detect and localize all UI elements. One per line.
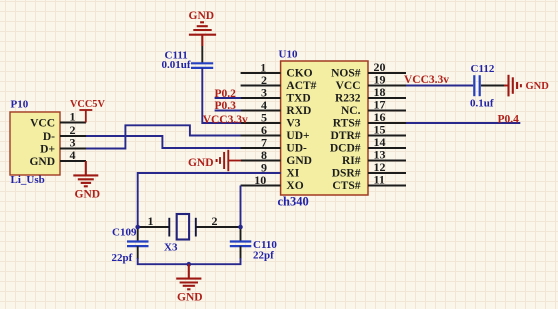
U10 pin 17 NC. xyxy=(341,98,406,117)
ground GND at C112 xyxy=(504,75,522,97)
svg-text:10: 10 xyxy=(254,173,266,187)
svg-text:GND: GND xyxy=(75,189,101,201)
connector P10 body xyxy=(10,112,60,175)
capacitor C112 xyxy=(474,75,479,96)
svg-text:GND: GND xyxy=(177,291,203,303)
ground GND at U10.8 xyxy=(216,150,241,171)
svg-text:VCC5V: VCC5V xyxy=(70,99,105,110)
svg-text:DTR#: DTR# xyxy=(330,130,360,142)
svg-text:P0.4: P0.4 xyxy=(498,113,520,125)
wire U10.19 to C112 xyxy=(406,85,473,87)
svg-text:RXD: RXD xyxy=(286,105,311,117)
U10 pin 15 DTR# xyxy=(330,123,406,142)
U10 pin 3 TXD xyxy=(241,85,311,104)
svg-text:VCC3.3v: VCC3.3v xyxy=(203,114,248,126)
svg-text:CKO: CKO xyxy=(286,67,312,79)
svg-text:RTS#: RTS# xyxy=(333,117,361,129)
U10 pin 20 NOS# xyxy=(331,60,406,79)
svg-text:P0.3: P0.3 xyxy=(215,100,237,112)
svg-text:V3: V3 xyxy=(286,117,300,129)
U10 pin 18 R232 xyxy=(335,85,406,104)
ground GND at P10 pin 4 xyxy=(73,161,98,186)
svg-text:22pf: 22pf xyxy=(253,250,274,262)
power symbol VCC5V xyxy=(79,110,92,123)
wire XI (U10.9 to X3 pin1) xyxy=(138,173,281,227)
wire GND to C111 xyxy=(201,46,203,63)
svg-text:C109: C109 xyxy=(112,227,137,239)
wire D+ (P10.3 to U10.6) xyxy=(86,125,241,148)
wire XO (U10.10 to X3 pin2) xyxy=(240,186,242,228)
svg-text:XO: XO xyxy=(286,180,303,192)
svg-text:RI#: RI# xyxy=(342,155,361,167)
wire C111 to U10.5 xyxy=(202,68,241,123)
svg-text:GND: GND xyxy=(286,155,312,167)
U10 pin 8 GND xyxy=(241,148,312,167)
svg-text:R232: R232 xyxy=(335,92,361,104)
U10 pin 16 RTS# xyxy=(333,110,406,129)
U10 pin 10 XO xyxy=(241,173,304,192)
svg-text:UD+: UD+ xyxy=(286,130,309,142)
U10 pin 2 ACT# xyxy=(241,73,317,92)
svg-text:11: 11 xyxy=(374,173,385,187)
svg-text:GND: GND xyxy=(29,156,55,168)
svg-text:GND: GND xyxy=(526,81,550,92)
wire C112 to GND xyxy=(481,85,506,87)
junction bottom rail xyxy=(187,262,192,267)
U10 pin 19 VCC xyxy=(336,73,406,92)
capacitor C110 xyxy=(230,227,252,259)
U10 pin 11 CTS# xyxy=(332,173,406,192)
P10 pin 4 (GND) xyxy=(29,148,86,168)
ground GND above C111 xyxy=(189,22,216,46)
svg-text:NOS#: NOS# xyxy=(331,67,361,79)
U10 pin 5 V3 xyxy=(241,110,301,129)
svg-text:VCC3.3v: VCC3.3v xyxy=(404,74,449,86)
U10 pin 4 RXD xyxy=(241,98,312,117)
U10 pin 12 DSR# xyxy=(332,160,406,179)
svg-text:2: 2 xyxy=(212,214,218,228)
svg-text:D+: D+ xyxy=(40,144,55,156)
svg-text:CTS#: CTS# xyxy=(332,180,360,192)
U10 pin 14 DCD# xyxy=(330,135,406,154)
svg-text:0.01uf: 0.01uf xyxy=(162,59,191,71)
wire stub P0.3 (U10.4) xyxy=(215,110,241,112)
wire U10.16 (P0.4) xyxy=(406,122,520,124)
svg-text:X3: X3 xyxy=(164,242,178,254)
svg-text:1: 1 xyxy=(148,214,154,228)
svg-text:ACT#: ACT# xyxy=(286,80,316,92)
svg-text:22pf: 22pf xyxy=(112,252,133,264)
P10 pin 3 (D+) xyxy=(40,135,86,155)
svg-text:0.1uf: 0.1uf xyxy=(470,98,494,110)
svg-text:XI: XI xyxy=(286,167,299,179)
U10 pin 7 UD- xyxy=(241,135,307,154)
svg-text:VCC: VCC xyxy=(30,118,55,130)
svg-text:C112: C112 xyxy=(471,63,495,75)
capacitor C111 xyxy=(191,63,213,68)
U10 pin 9 XI xyxy=(241,160,300,179)
P10 pin 1 (VCC) xyxy=(30,109,86,129)
svg-text:GND: GND xyxy=(189,10,215,22)
svg-text:P10: P10 xyxy=(11,99,29,111)
wire D- (P10.2 to U10.7) xyxy=(86,136,241,148)
crystal X3 xyxy=(138,214,241,240)
IC U10 body xyxy=(281,61,368,195)
P10 pin 2 (D-) xyxy=(43,123,86,143)
svg-text:ch340: ch340 xyxy=(278,194,309,208)
junction X3 pin1 xyxy=(135,225,140,230)
wire stub P0.2 (U10.3) xyxy=(215,97,241,99)
svg-text:4: 4 xyxy=(70,148,76,162)
svg-text:VCC: VCC xyxy=(336,80,361,92)
svg-text:Li_Usb: Li_Usb xyxy=(11,174,45,186)
svg-text:TXD: TXD xyxy=(286,92,310,104)
U10 pin 6 UD+ xyxy=(241,123,310,142)
svg-text:GND: GND xyxy=(188,157,214,169)
capacitor C109 xyxy=(127,227,149,259)
svg-text:1: 1 xyxy=(70,109,76,123)
svg-text:NC.: NC. xyxy=(341,105,361,117)
U10 pin 13 RI# xyxy=(342,148,406,167)
svg-text:UD-: UD- xyxy=(286,142,307,154)
svg-text:P0.2: P0.2 xyxy=(215,88,237,100)
svg-text:D-: D- xyxy=(43,131,55,143)
svg-text:DSR#: DSR# xyxy=(332,167,361,179)
junction X3 pin2 xyxy=(238,225,243,230)
U10 pin 1 CKO xyxy=(241,60,313,79)
svg-text:U10: U10 xyxy=(279,49,298,61)
ground GND below X3 xyxy=(176,264,201,289)
wire crystal bottom rail xyxy=(138,258,241,264)
svg-text:DCD#: DCD# xyxy=(330,142,361,154)
